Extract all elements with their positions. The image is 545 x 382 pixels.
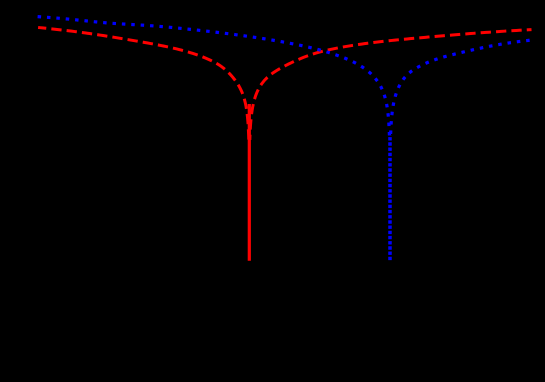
red dashed resonance curve: [38, 27, 531, 259]
blue dotted resonance curve: [38, 17, 532, 259]
red notch solid vertical segment: [248, 104, 251, 261]
blue notch dotted vertical column: [388, 135, 392, 260]
